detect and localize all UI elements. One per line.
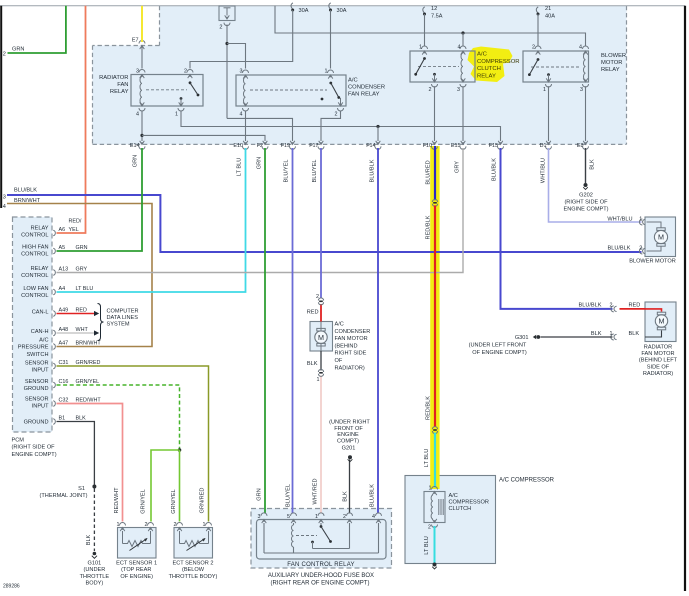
svg-text:2: 2 — [428, 525, 431, 531]
svg-text:CLUTCH: CLUTCH — [477, 66, 501, 72]
svg-text:2: 2 — [316, 294, 319, 300]
svg-text:5: 5 — [287, 514, 290, 520]
svg-text:D1: D1 — [540, 143, 547, 149]
svg-text:RED/: RED/ — [69, 219, 82, 225]
svg-text:BLU/YEL: BLU/YEL — [284, 159, 290, 182]
svg-text:2: 2 — [335, 112, 338, 118]
svg-text:1: 1 — [315, 514, 318, 520]
svg-text:ECT SENSOR 1: ECT SENSOR 1 — [116, 561, 157, 567]
svg-text:G101: G101 — [88, 561, 102, 567]
svg-text:B1: B1 — [59, 416, 66, 422]
svg-text:FRONT OF: FRONT OF — [334, 426, 363, 432]
svg-text:RED: RED — [76, 308, 87, 314]
svg-text:BLOWER: BLOWER — [601, 53, 626, 59]
svg-text:RELAY: RELAY — [477, 73, 496, 79]
svg-text:RADIATOR): RADIATOR) — [335, 365, 365, 371]
svg-text:3: 3 — [136, 69, 139, 75]
svg-text:RED/WHT: RED/WHT — [76, 398, 102, 404]
svg-text:(UNDER LEFT FRONT: (UNDER LEFT FRONT — [469, 343, 527, 349]
svg-text:FAN MOTOR: FAN MOTOR — [641, 351, 674, 357]
svg-text:1: 1 — [419, 45, 422, 51]
svg-text:AUXILIARY UNDER-HOOD FUSE BOX: AUXILIARY UNDER-HOOD FUSE BOX — [268, 573, 374, 579]
svg-text:M: M — [659, 317, 665, 326]
svg-text:SENSOR: SENSOR — [25, 397, 49, 403]
svg-text:THROTTLE: THROTTLE — [80, 574, 110, 580]
svg-text:BLK: BLK — [307, 361, 318, 367]
svg-text:2: 2 — [145, 522, 148, 528]
svg-text:F15: F15 — [489, 143, 498, 149]
svg-text:CONDENSER: CONDENSER — [348, 85, 385, 91]
svg-text:RELAY: RELAY — [31, 226, 49, 232]
svg-text:3: 3 — [240, 69, 243, 75]
svg-text:21: 21 — [545, 6, 551, 12]
svg-text:LT BLU: LT BLU — [424, 449, 430, 467]
svg-text:1: 1 — [317, 377, 320, 383]
svg-text:30A: 30A — [299, 8, 309, 14]
svg-text:ECT SENSOR 2: ECT SENSOR 2 — [173, 561, 214, 567]
svg-text:F19: F19 — [281, 143, 290, 149]
svg-text:3: 3 — [258, 514, 261, 520]
svg-text:G202: G202 — [579, 193, 593, 199]
svg-text:12: 12 — [431, 6, 437, 12]
svg-text:F17: F17 — [309, 143, 318, 149]
svg-text:WHT/RED: WHT/RED — [313, 478, 319, 504]
svg-text:A/C: A/C — [449, 493, 458, 499]
svg-text:GROUND: GROUND — [24, 386, 49, 392]
svg-text:RELAY: RELAY — [110, 89, 129, 95]
svg-text:WHT/BLU: WHT/BLU — [607, 217, 632, 223]
svg-text:E8: E8 — [577, 143, 584, 149]
svg-text:A/C: A/C — [477, 52, 488, 58]
svg-text:LOW FAN: LOW FAN — [23, 286, 48, 292]
svg-text:4: 4 — [579, 45, 582, 51]
svg-text:M: M — [658, 233, 664, 242]
svg-text:E14: E14 — [130, 143, 140, 149]
svg-text:A5: A5 — [59, 245, 66, 251]
svg-text:A4: A4 — [59, 286, 66, 292]
svg-text:GRN: GRN — [12, 47, 24, 53]
svg-text:GRN: GRN — [76, 245, 88, 251]
svg-text:LT BLU: LT BLU — [237, 158, 243, 176]
svg-text:(UNDER RIGHT: (UNDER RIGHT — [329, 420, 370, 426]
svg-text:GRN: GRN — [257, 488, 263, 500]
svg-text:OF ENGINE COMPT): OF ENGINE COMPT) — [472, 350, 527, 356]
svg-text:F2: F2 — [257, 143, 263, 149]
svg-text:2: 2 — [184, 69, 187, 75]
svg-text:2: 2 — [429, 87, 432, 93]
svg-text:PCM: PCM — [12, 438, 25, 444]
svg-text:G301: G301 — [515, 335, 529, 341]
svg-text:GRY: GRY — [76, 267, 88, 273]
svg-text:3: 3 — [3, 195, 6, 201]
svg-text:THROTTLE BODY): THROTTLE BODY) — [169, 574, 218, 580]
svg-text:BLU/BLK: BLU/BLK — [492, 158, 498, 181]
svg-text:WHT/BLU: WHT/BLU — [541, 158, 547, 183]
svg-text:C31: C31 — [59, 360, 69, 366]
svg-text:2: 2 — [532, 45, 535, 51]
svg-text:SYSTEM: SYSTEM — [107, 322, 130, 328]
svg-text:BRN/WHT: BRN/WHT — [14, 198, 41, 204]
svg-text:CONTROL: CONTROL — [21, 252, 48, 258]
svg-text:CAN-H: CAN-H — [31, 329, 49, 335]
svg-text:RADIATOR: RADIATOR — [99, 75, 128, 81]
svg-text:RED/BLK: RED/BLK — [426, 215, 432, 239]
svg-text:1: 1 — [175, 112, 178, 118]
svg-text:2: 2 — [3, 52, 6, 58]
svg-text:RADIATOR): RADIATOR) — [643, 371, 673, 377]
svg-text:(BELOW: (BELOW — [182, 567, 205, 573]
svg-text:RED: RED — [629, 303, 641, 309]
svg-text:RELAY: RELAY — [601, 67, 620, 73]
svg-text:BLU/RED: BLU/RED — [426, 160, 432, 184]
svg-text:RELAY: RELAY — [31, 266, 49, 272]
svg-text:ENGINE COMPT): ENGINE COMPT) — [563, 207, 608, 213]
svg-text:CONDENSER: CONDENSER — [335, 329, 371, 335]
svg-text:ENGINE COMPT): ENGINE COMPT) — [12, 452, 57, 458]
svg-text:(UNDER: (UNDER — [84, 567, 106, 573]
svg-text:4: 4 — [372, 514, 375, 520]
svg-text:GRN/RED: GRN/RED — [76, 360, 101, 366]
svg-text:FAN RELAY: FAN RELAY — [348, 92, 380, 98]
svg-text:C16: C16 — [59, 379, 69, 385]
svg-text:BLU/BLK: BLU/BLK — [578, 303, 601, 309]
svg-text:BLU/YEL: BLU/YEL — [312, 159, 318, 182]
svg-text:289286: 289286 — [3, 584, 20, 590]
svg-text:DATA LINES: DATA LINES — [107, 315, 139, 321]
svg-text:FAN CONTROL RELAY: FAN CONTROL RELAY — [287, 562, 355, 568]
svg-text:BLK: BLK — [343, 491, 349, 502]
svg-text:COMPRESSOR: COMPRESSOR — [477, 59, 520, 65]
svg-text:F14: F14 — [366, 143, 375, 149]
svg-text:1: 1 — [639, 217, 642, 223]
svg-text:BODY): BODY) — [86, 580, 104, 586]
svg-text:F10: F10 — [423, 143, 432, 149]
svg-text:4: 4 — [458, 45, 461, 51]
svg-text:OF: OF — [335, 358, 343, 364]
svg-text:FAN: FAN — [117, 82, 128, 88]
svg-text:4: 4 — [136, 112, 139, 118]
svg-text:3: 3 — [457, 87, 460, 93]
svg-text:2: 2 — [174, 522, 177, 528]
svg-text:3: 3 — [580, 87, 583, 93]
svg-text:CONTROL: CONTROL — [21, 293, 48, 299]
svg-text:BLU/BLK: BLU/BLK — [370, 159, 376, 182]
svg-text:BLK: BLK — [590, 159, 596, 170]
svg-text:RIGHT SIDE: RIGHT SIDE — [335, 351, 367, 357]
svg-text:BLOWER MOTOR: BLOWER MOTOR — [629, 259, 676, 265]
svg-text:ENGINE: ENGINE — [337, 432, 359, 438]
svg-text:4: 4 — [240, 112, 243, 118]
svg-text:(BEHIND LEFT: (BEHIND LEFT — [639, 358, 678, 364]
svg-text:WHT: WHT — [76, 327, 89, 333]
svg-text:BRN/WHT: BRN/WHT — [76, 341, 102, 347]
svg-text:(RIGHT SIDE OF: (RIGHT SIDE OF — [12, 445, 56, 451]
svg-text:A48: A48 — [59, 327, 69, 333]
svg-text:PRESSURE: PRESSURE — [18, 345, 49, 351]
svg-text:G201: G201 — [342, 446, 356, 452]
svg-text:GRN/YEL: GRN/YEL — [141, 489, 147, 514]
svg-text:BLK: BLK — [591, 331, 602, 337]
svg-text:GRN: GRN — [257, 157, 263, 169]
svg-text:BLU/YEL: BLU/YEL — [286, 484, 292, 507]
svg-text:YEL: YEL — [69, 227, 79, 233]
svg-text:M: M — [318, 333, 324, 342]
svg-text:SIDE OF: SIDE OF — [647, 364, 670, 370]
svg-text:1: 1 — [203, 522, 206, 528]
svg-text:BLK: BLK — [86, 534, 92, 545]
svg-text:COMPT): COMPT) — [337, 438, 359, 444]
svg-text:LT BLU: LT BLU — [424, 536, 430, 554]
svg-text:1: 1 — [610, 331, 613, 337]
svg-text:GROUND: GROUND — [24, 420, 49, 426]
svg-text:BLK: BLK — [76, 416, 87, 422]
svg-text:E7: E7 — [132, 38, 139, 44]
svg-text:2: 2 — [610, 303, 613, 309]
svg-text:A47: A47 — [59, 341, 69, 347]
svg-text:COMPRESSOR: COMPRESSOR — [449, 500, 489, 506]
svg-text:CONTROL: CONTROL — [21, 233, 48, 239]
svg-text:SENSOR: SENSOR — [25, 379, 49, 385]
svg-text:BLK: BLK — [629, 331, 640, 337]
svg-text:FAN MOTOR: FAN MOTOR — [335, 336, 368, 342]
svg-text:CAN-L: CAN-L — [32, 310, 49, 316]
svg-text:(RIGHT SIDE OF: (RIGHT SIDE OF — [564, 200, 608, 206]
svg-text:INPUT: INPUT — [32, 368, 49, 374]
svg-text:LT BLU: LT BLU — [76, 286, 94, 292]
svg-text:A/C COMPRESSOR: A/C COMPRESSOR — [499, 478, 555, 484]
svg-text:A49: A49 — [59, 308, 69, 314]
svg-text:(BEHIND: (BEHIND — [335, 343, 358, 349]
svg-text:CLUTCH: CLUTCH — [449, 506, 472, 512]
svg-text:4: 4 — [3, 204, 6, 210]
svg-text:E15: E15 — [451, 143, 461, 149]
svg-text:E10: E10 — [233, 143, 243, 149]
svg-text:A13: A13 — [59, 267, 69, 273]
svg-text:2: 2 — [639, 245, 642, 251]
svg-text:1: 1 — [429, 486, 432, 492]
svg-text:(TOP REAR: (TOP REAR — [121, 567, 151, 573]
svg-text:7.5A: 7.5A — [431, 14, 443, 20]
svg-text:RADIATOR: RADIATOR — [644, 344, 672, 350]
svg-text:BLU/BLK: BLU/BLK — [14, 188, 37, 194]
svg-text:GRN: GRN — [133, 155, 139, 167]
svg-text:COMPUTER: COMPUTER — [107, 309, 139, 315]
svg-text:GRN/RED: GRN/RED — [200, 488, 206, 514]
svg-text:GRY: GRY — [455, 161, 461, 173]
svg-text:30A: 30A — [337, 8, 347, 14]
svg-text:RED/WHT: RED/WHT — [114, 487, 120, 514]
svg-text:(RIGHT REAR OF ENGINE COMPT): (RIGHT REAR OF ENGINE COMPT) — [271, 581, 370, 587]
svg-text:CONTROL: CONTROL — [21, 273, 48, 279]
svg-text:C32: C32 — [59, 398, 69, 404]
svg-text:RED/BLK: RED/BLK — [426, 396, 432, 420]
svg-text:2: 2 — [219, 25, 222, 31]
svg-text:40A: 40A — [545, 14, 555, 20]
svg-text:BLU/BLK: BLU/BLK — [370, 484, 376, 507]
svg-text:1: 1 — [325, 69, 328, 75]
svg-text:BLU/BLK: BLU/BLK — [607, 245, 630, 251]
svg-text:A/C: A/C — [348, 78, 358, 84]
svg-text:OF ENGINE): OF ENGINE) — [120, 574, 153, 580]
svg-text:S1: S1 — [78, 486, 85, 492]
svg-text:HIGH FAN: HIGH FAN — [22, 245, 48, 251]
svg-text:A6: A6 — [59, 227, 66, 233]
svg-text:MOTOR: MOTOR — [601, 60, 622, 66]
svg-text:SENSOR: SENSOR — [25, 361, 49, 367]
svg-text:1: 1 — [117, 522, 120, 528]
svg-text:A/C: A/C — [335, 322, 344, 328]
svg-text:INPUT: INPUT — [32, 404, 49, 410]
svg-text:A/C: A/C — [39, 338, 48, 344]
svg-text:2: 2 — [343, 514, 346, 520]
svg-text:GRN/YEL: GRN/YEL — [171, 489, 177, 514]
svg-text:RED: RED — [307, 310, 319, 316]
svg-text:1: 1 — [543, 87, 546, 93]
svg-text:SWITCH: SWITCH — [26, 352, 48, 358]
svg-text:(THERMAL JOINT): (THERMAL JOINT) — [40, 493, 88, 499]
svg-text:GRN/YEL: GRN/YEL — [76, 379, 100, 385]
